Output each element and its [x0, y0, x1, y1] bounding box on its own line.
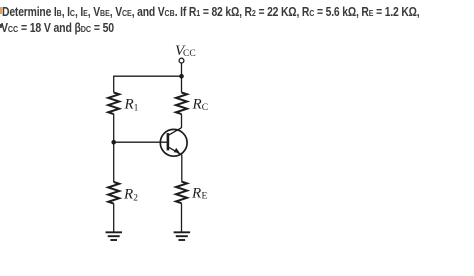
- cropped character stub before line 2: [0, 24, 2, 29]
- wire base junction down to R2: [113, 142, 115, 182]
- transistor Q1: [160, 128, 187, 157]
- orange cropped list-marker fragment: [0, 7, 2, 14]
- resistor R1: [108, 93, 138, 115]
- wire emitter down to RE: [181, 155, 183, 182]
- junction node at top rail: [179, 74, 184, 79]
- node VCC terminal: [179, 58, 184, 63]
- svg-text:R: R: [191, 186, 201, 202]
- ground (left): [106, 232, 123, 240]
- junction node at base: [111, 140, 116, 145]
- wire base junction to transistor base: [114, 141, 167, 143]
- svg-text:R: R: [124, 96, 134, 112]
- problem statement line 1: [2, 5, 420, 19]
- wire RE to right ground: [181, 203, 183, 232]
- resistor R2: [108, 182, 138, 204]
- ground (right): [174, 232, 191, 240]
- svg-text:R: R: [192, 97, 202, 113]
- resistor RE: [176, 182, 208, 204]
- svg-text:E: E: [202, 192, 208, 202]
- wire R1 to base junction: [113, 114, 115, 142]
- wire VCC terminal to top junction: [181, 63, 183, 76]
- wire R2 to left ground: [113, 204, 115, 233]
- resistor RC: [176, 93, 208, 115]
- wire RC to collector: [181, 114, 183, 128]
- wire top junction down to RC: [181, 76, 183, 92]
- wire top rail to R1 branch: [114, 75, 182, 77]
- svg-text:2: 2: [133, 194, 138, 204]
- node VCC label: [175, 43, 196, 59]
- svg-text:1: 1: [134, 103, 139, 113]
- svg-text:C: C: [202, 103, 208, 113]
- svg-text:R: R: [123, 187, 133, 203]
- svg-text:CC: CC: [183, 49, 196, 59]
- wire top rail down to R1: [113, 76, 115, 93]
